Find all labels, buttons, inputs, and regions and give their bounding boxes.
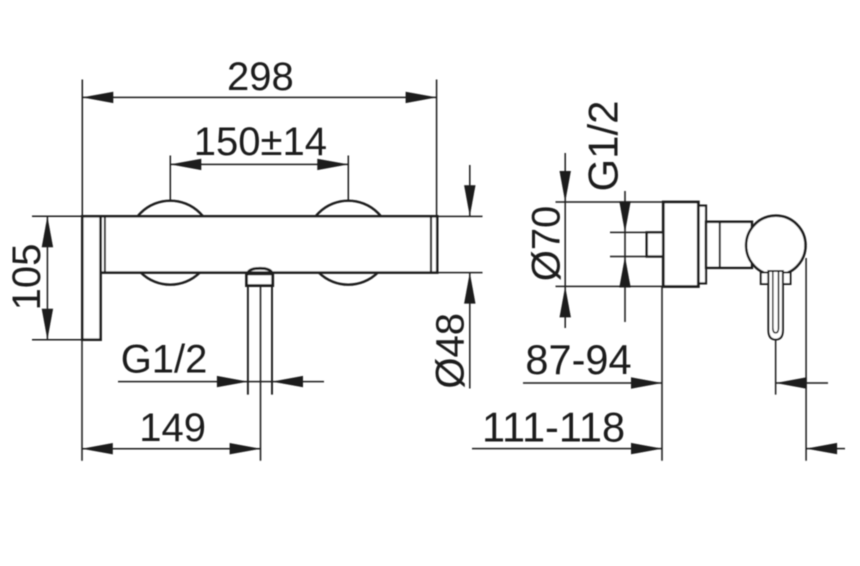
right connection circle xyxy=(306,201,390,285)
dim line 150 xyxy=(170,163,348,165)
dim 150 extension right xyxy=(347,156,349,201)
arrow 150 right xyxy=(317,159,348,170)
side view rear band xyxy=(698,206,706,284)
arrow 105 bottom xyxy=(42,309,53,340)
arrow 149 right xyxy=(230,443,261,454)
body seam line xyxy=(719,222,721,268)
arrow 150 left xyxy=(170,159,201,170)
arrow G1/2 front left xyxy=(217,376,248,387)
dim Ø48 extension top xyxy=(439,215,483,217)
dim line 298 xyxy=(82,96,436,98)
left connection circle xyxy=(128,201,212,285)
dim 105 bottom tick xyxy=(32,339,82,341)
outlet dome xyxy=(248,268,273,274)
ext wall plane vertical xyxy=(661,287,663,461)
dim 298 extension line left xyxy=(81,80,83,217)
dim line 87-94 right segment xyxy=(776,382,828,384)
wall plate (front view) xyxy=(82,216,100,339)
bar left end cap line xyxy=(104,218,106,272)
outlet pipe right wall xyxy=(271,286,273,395)
dim line 149 xyxy=(82,448,261,450)
arrow Ø48 up xyxy=(464,273,475,304)
outlet centerline extension xyxy=(260,286,262,461)
svg-text:G1/2: G1/2 xyxy=(121,338,208,382)
dim line Ø48 lower segment xyxy=(469,273,471,389)
ext plate top (side) xyxy=(556,201,664,203)
arrow G1/2 front right xyxy=(272,376,303,387)
side view wall plate xyxy=(663,202,698,287)
arrow G1/2 side up xyxy=(619,257,630,288)
bar right end cap line xyxy=(430,218,432,272)
dim line 111-118 right segment xyxy=(806,448,845,450)
arrow 105 top xyxy=(42,216,53,247)
dim 150 extension left xyxy=(169,156,171,201)
outlet pipe left wall xyxy=(247,286,249,395)
mixer bar body xyxy=(101,216,438,272)
arrow Ø48 down xyxy=(464,185,475,216)
lever stem outer xyxy=(768,271,783,340)
arrow G1/2 side down xyxy=(619,201,630,232)
lever stem inner xyxy=(773,272,779,333)
dim line Ø70 xyxy=(564,153,566,328)
svg-text:87-94: 87-94 xyxy=(525,336,631,383)
arrow 87-94 right-pointing xyxy=(631,377,662,388)
dim Ø48 extension bottom xyxy=(439,272,483,274)
lever right tab xyxy=(783,273,791,285)
svg-text:105: 105 xyxy=(5,244,49,311)
arrow 298 right xyxy=(406,92,437,103)
dim line 105 xyxy=(46,216,48,340)
side view body xyxy=(706,222,752,268)
handle ball xyxy=(746,216,805,275)
dim line 87-94 left segment xyxy=(523,382,662,384)
dim 298 extension line right xyxy=(436,80,438,217)
dim 105 top tick xyxy=(32,215,82,217)
dim line 111-118 left segment xyxy=(472,448,662,450)
side view inlet nipple xyxy=(647,232,664,256)
ext plate bottom (side) xyxy=(556,285,664,287)
ext nipple bottom xyxy=(610,256,647,258)
svg-text:Ø70: Ø70 xyxy=(525,206,569,282)
arrow 149 left xyxy=(82,443,113,454)
ext nipple top xyxy=(610,231,647,233)
arrow Ø70 down xyxy=(560,171,571,202)
arrow 111-118 right-pointing xyxy=(631,443,662,454)
svg-text:Ø48: Ø48 xyxy=(429,313,473,389)
extension below plate to 149 xyxy=(81,340,83,461)
svg-text:111-118: 111-118 xyxy=(482,404,625,451)
lever left tab xyxy=(761,273,769,285)
arrow 111-118 left-pointing xyxy=(806,443,837,454)
arrow Ø70 up xyxy=(560,286,571,317)
outlet collar xyxy=(247,274,273,286)
svg-text:G1/2: G1/2 xyxy=(580,100,627,191)
dim line G1/2 front xyxy=(118,381,324,383)
dim line Ø48 upper segment xyxy=(469,165,471,216)
arrow 298 left xyxy=(82,92,113,103)
arrow 87-94 left-pointing xyxy=(776,377,807,388)
dim line G1/2 side xyxy=(624,191,626,322)
svg-text:149: 149 xyxy=(139,406,206,450)
ext ball right vertical xyxy=(805,258,807,461)
svg-text:298: 298 xyxy=(227,55,294,99)
ext lever center vertical xyxy=(775,341,777,395)
svg-text:150±14: 150±14 xyxy=(194,120,327,164)
